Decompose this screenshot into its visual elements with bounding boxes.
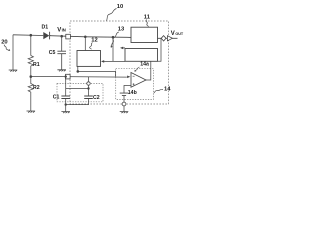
wire lower feedback jog (78, 71, 116, 76)
svg-text:14: 14 (164, 87, 171, 93)
dashed enclosure box 10 (70, 21, 169, 104)
leader arrow for 13 (111, 32, 118, 46)
svg-text:C1: C1 (53, 95, 60, 101)
ground (R2) (27, 111, 36, 113)
svg-text:20: 20 (1, 39, 7, 45)
svg-text:R2: R2 (33, 85, 40, 91)
wire noninverting input (124, 86, 131, 94)
capacitor C2 (84, 96, 93, 99)
leader for 14a (136, 67, 140, 71)
boundary circle C2 stem (87, 82, 90, 85)
block box 11 (131, 27, 158, 42)
svg-text:C2: C2 (93, 95, 100, 101)
svg-text:C5: C5 (49, 50, 56, 56)
node C2 top link (87, 87, 89, 89)
svg-text:R1: R1 (33, 62, 40, 68)
leader arrow for 20 (4, 45, 8, 51)
resistor R2 (28, 77, 33, 111)
node switch drop (112, 36, 115, 39)
wire cap top link (66, 88, 89, 90)
wire feedback to box12 (103, 60, 125, 62)
control arrow into switch (122, 47, 125, 49)
ground (14b) (120, 112, 129, 114)
node box12 feed (84, 36, 87, 39)
wire sense line to inverting input (31, 75, 127, 78)
wire box12 lower pin (77, 66, 79, 71)
svg-text:IN: IN (62, 28, 66, 33)
ground (C5) (57, 70, 66, 72)
svg-text:14a: 14a (140, 62, 149, 68)
terminal square on sense line (66, 74, 71, 79)
output diamond terminal (161, 36, 166, 41)
leader line for 12 (90, 43, 93, 50)
wire 14b to ground (123, 96, 125, 112)
svg-text:13: 13 (118, 27, 125, 33)
terminal square Vin (66, 34, 71, 39)
wire op-amp output (146, 61, 151, 80)
svg-text:D1: D1 (42, 25, 49, 31)
ground (input) (9, 70, 18, 72)
dashed sub-box capacitors (57, 84, 103, 102)
svg-text:14b: 14b (128, 90, 137, 96)
node R1 top (30, 34, 33, 37)
wire C2 stem upper (88, 77, 90, 96)
wire feedback from output (158, 38, 162, 61)
svg-text:11: 11 (144, 14, 151, 20)
svg-text:OUT: OUT (175, 32, 184, 36)
leader line for 11 (146, 20, 148, 27)
leader line for 14 (154, 89, 163, 93)
ground (C1) (61, 112, 70, 114)
svg-text:V: V (171, 31, 175, 37)
resistor R1 (28, 56, 33, 77)
diode D1 (43, 32, 49, 39)
op-amp plus (133, 83, 135, 85)
capacitor C1 (61, 96, 70, 99)
boundary circle terminal bottom (122, 102, 126, 106)
output arrow symbol (167, 36, 172, 41)
wire left input drop (12, 35, 14, 70)
capacitor C5 (57, 36, 66, 70)
node C1 top on sense line (65, 75, 67, 77)
block box (control) (125, 49, 158, 62)
wire output (158, 37, 178, 39)
block box 12 (77, 51, 101, 67)
wire main input rail (13, 35, 131, 38)
wire R1 top (30, 35, 32, 55)
node box12 lower (77, 70, 80, 73)
wire switch drop (112, 37, 114, 61)
wire box12 feed (84, 37, 86, 51)
node C1 bottom (65, 103, 67, 105)
arrowhead into op-amp (127, 76, 130, 79)
node C5 top (60, 35, 63, 38)
wire cap bottoms (66, 99, 89, 112)
op-amp 14a (131, 73, 146, 88)
reference source 14b battery (120, 93, 129, 96)
node divider tap (30, 75, 33, 78)
dashed box 14 (116, 69, 154, 100)
svg-text:10: 10 (117, 4, 123, 10)
wire C1 stem (65, 77, 67, 96)
op-amp minus (133, 75, 135, 77)
leader line for 10 (107, 9, 117, 21)
